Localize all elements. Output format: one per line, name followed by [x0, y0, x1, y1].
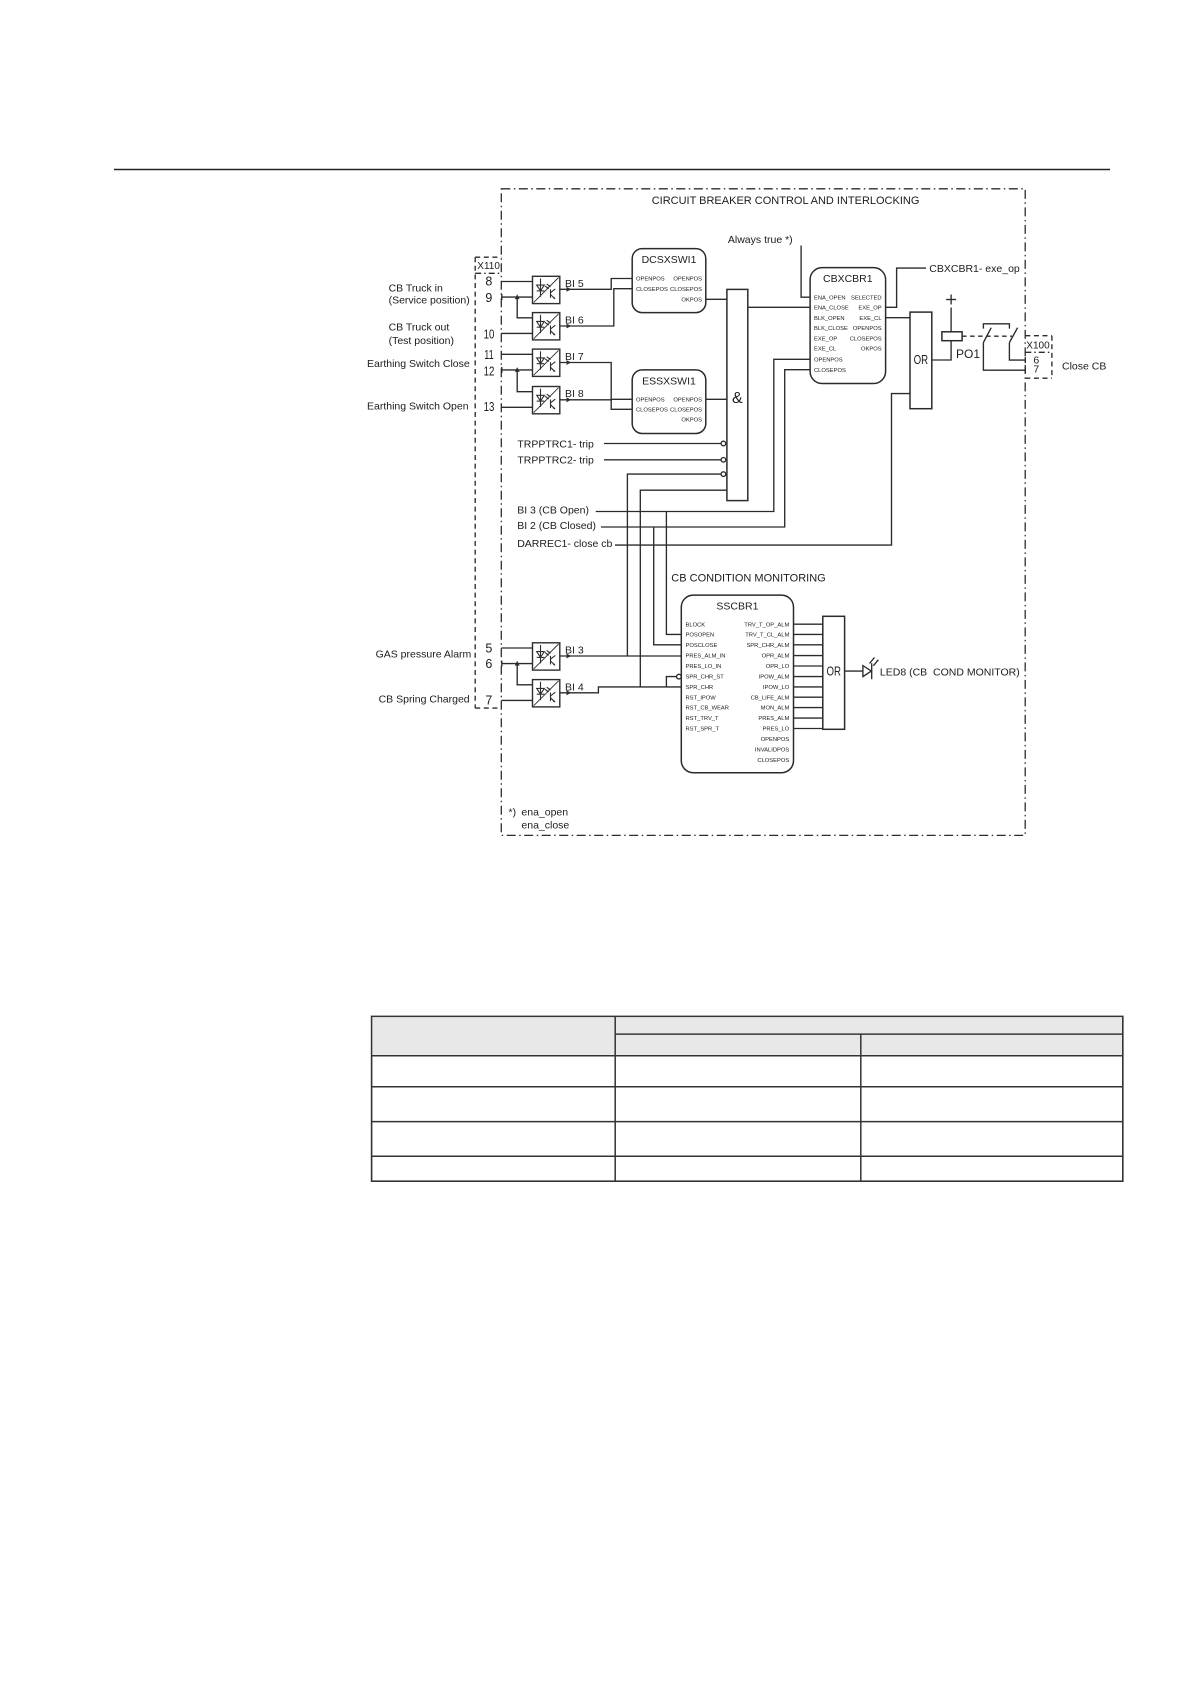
svg-text:TRV_T_CL_ALM: TRV_T_CL_ALM [745, 633, 789, 639]
svg-text:EXE_OP: EXE_OP [814, 336, 837, 342]
svg-text:GAS pressure Alarm: GAS pressure Alarm [376, 649, 472, 661]
svg-text:CB Spring Charged: CB Spring Charged [379, 693, 470, 705]
contact bracket [983, 324, 1009, 329]
wire branch BI2 to SSCBR1.POSCLOSE [654, 527, 682, 645]
contact blade 2 [1009, 328, 1017, 343]
svg-text:6: 6 [485, 657, 492, 671]
svg-text:8: 8 [485, 275, 492, 289]
svg-text:SPR_CHR: SPR_CHR [686, 685, 714, 691]
svg-text:OPENPOS: OPENPOS [673, 397, 702, 403]
svg-text:ENA_CLOSE: ENA_CLOSE [814, 305, 849, 311]
wire terminal 12 to BI7 lower input [501, 369, 532, 371]
svg-text:OPR_LO: OPR_LO [766, 664, 790, 670]
wire DCSXSWI1.OKPOS to AND [706, 298, 727, 300]
svg-text:11: 11 [484, 348, 494, 362]
wire terminal 13 to BI8 lower input [501, 406, 532, 408]
svg-text:(Test position): (Test position) [389, 335, 454, 347]
svg-text:CB Truck out: CB Truck out [389, 322, 450, 334]
svg-text:X100: X100 [1026, 340, 1050, 351]
inverter circle SPR_CHR_ST [677, 674, 682, 679]
wire terminal 11 to BI7 [501, 353, 532, 355]
svg-text:OPENPOS: OPENPOS [761, 737, 790, 743]
label CB Truck out (Test position) [389, 322, 454, 348]
block SSCBR1 [681, 595, 793, 773]
svg-text:RST_CB_WEAR: RST_CB_WEAR [686, 706, 730, 712]
wire terminal 5 to BI3 [501, 647, 532, 649]
OR gate 2 [823, 616, 845, 729]
svg-text:&: & [732, 390, 743, 407]
wires SSCBR1 outputs to OR2 [794, 624, 823, 728]
svg-text:OR: OR [914, 353, 929, 367]
wire branch 9 to BI6 upper input [517, 297, 532, 318]
junction on wire 9 [515, 294, 520, 299]
wire terminal 6 to BI3 lower input [501, 663, 532, 665]
svg-text:BI 3 (CB Open): BI 3 (CB Open) [517, 504, 589, 516]
svg-text:DCSXSWI1: DCSXSWI1 [642, 254, 697, 266]
wire BI5 output to DCSXSWI1.OPENPOS [560, 279, 632, 290]
block ESSXSWI1 [632, 370, 706, 434]
svg-text:*): *) [509, 806, 517, 818]
wire terminal 8 to BI5 [501, 281, 532, 283]
block CBXCBR1 [810, 268, 886, 384]
wire OR output to PO1 coil [932, 341, 951, 360]
svg-text:CLOSEPOS: CLOSEPOS [670, 407, 702, 413]
junction on wire 6 [515, 661, 520, 666]
svg-text:OKPOS: OKPOS [861, 347, 882, 353]
svg-text:RST_IPOW: RST_IPOW [686, 695, 717, 701]
wire BI3 line to CBXCBR1.OPENPOS [596, 359, 810, 511]
svg-text:OPENPOS: OPENPOS [853, 326, 882, 332]
svg-text:RST_TRV_T: RST_TRV_T [686, 716, 720, 722]
svg-text:9: 9 [485, 291, 492, 305]
wire AND output to CBXCBR1.ENA_CLOSE [748, 306, 810, 308]
svg-text:CBXCBR1- exe_op: CBXCBR1- exe_op [929, 263, 1020, 275]
svg-text:7: 7 [1033, 363, 1039, 375]
svg-text:CLOSEPOS: CLOSEPOS [670, 287, 702, 293]
svg-text:CB_LIFE_ALM: CB_LIFE_ALM [751, 695, 790, 701]
svg-text:EXE_CL: EXE_CL [814, 347, 837, 353]
wire gas alarm to AND inverted input [627, 474, 721, 656]
LED symbol [863, 658, 878, 680]
svg-text:OKPOS: OKPOS [681, 297, 702, 303]
svg-text:SPR_CHR_ALM: SPR_CHR_ALM [746, 643, 789, 649]
OR gate 1 [910, 312, 932, 409]
optocoupler BI7 [533, 349, 560, 376]
svg-text:OPR_ALM: OPR_ALM [762, 654, 790, 660]
AND gate [727, 289, 748, 500]
svg-text:CLOSEPOS: CLOSEPOS [850, 336, 882, 342]
wire contact 2 to X100:6 [1009, 343, 1025, 361]
wire spring charged to AND input [640, 490, 727, 687]
svg-text:7: 7 [485, 694, 492, 708]
svg-text:OPENPOS: OPENPOS [814, 357, 843, 363]
wire branch 6 to BI4 upper input [517, 664, 532, 685]
svg-text:PRES_LO_IN: PRES_LO_IN [686, 664, 722, 670]
svg-text:SELECTED: SELECTED [851, 295, 882, 301]
optocoupler BI6 [533, 313, 560, 340]
wire always true to CBXCBR1.ENA_OPEN [801, 246, 810, 298]
wire BI2 line to CBXCBR1.CLOSEPOS [601, 370, 810, 527]
header rule [114, 169, 1110, 171]
svg-text:MON_ALM: MON_ALM [761, 706, 790, 712]
svg-text:LED8 (CB COND MONITOR): LED8 (CB COND MONITOR) [880, 666, 1020, 678]
wire BI3 output to SSCBR1.PRES_ALM_IN [560, 655, 682, 657]
wire TRPPTRC1 to AND inverted input [604, 443, 721, 445]
wire contact 1 to X100:7 [983, 343, 1025, 371]
wire CBXCBR1.EXE_OP to label [886, 268, 926, 307]
svg-text:X110: X110 [477, 261, 500, 272]
enclosure CIRCUIT BREAKER CONTROL AND INTERLOCKING [501, 189, 1025, 836]
svg-text:POSCLOSE: POSCLOSE [686, 643, 718, 649]
junction on wire 12 [515, 367, 520, 372]
svg-text:POSOPEN: POSOPEN [686, 633, 715, 639]
svg-text:PRES_ALM_IN: PRES_ALM_IN [686, 654, 726, 660]
svg-text:ena_open: ena_open [521, 806, 568, 818]
optocoupler BI4 (spring) [533, 680, 560, 707]
terminal block X100 [1025, 336, 1052, 379]
svg-text:12: 12 [484, 364, 495, 378]
svg-text:TRPPTRC2- trip: TRPPTRC2- trip [517, 455, 594, 467]
svg-text:TRV_T_OP_ALM: TRV_T_OP_ALM [744, 622, 789, 628]
svg-text:OR: OR [826, 664, 841, 678]
svg-text:TRPPTRC1- trip: TRPPTRC1- trip [517, 438, 594, 450]
svg-text:OPENPOS: OPENPOS [673, 277, 702, 283]
svg-text:BI 2 (CB Closed): BI 2 (CB Closed) [517, 520, 596, 532]
svg-text:RST_SPR_T: RST_SPR_T [686, 727, 720, 733]
svg-text:EXE_OP: EXE_OP [858, 305, 881, 311]
optocoupler BI5 [533, 276, 560, 303]
svg-text:CIRCUIT BREAKER CONTROL AND IN: CIRCUIT BREAKER CONTROL AND INTERLOCKING [652, 195, 920, 207]
svg-text:BLK_CLOSE: BLK_CLOSE [814, 326, 848, 332]
svg-text:CLOSEPOS: CLOSEPOS [814, 368, 846, 374]
svg-text:Close CB: Close CB [1062, 360, 1106, 372]
svg-text:EXE_CL: EXE_CL [859, 316, 882, 322]
wire terminal 7 to BI4 lower input [501, 699, 532, 701]
svg-text:13: 13 [484, 400, 495, 414]
svg-text:CLOSEPOS: CLOSEPOS [757, 758, 789, 764]
block DCSXSWI1 [632, 249, 706, 313]
svg-text:CLOSEPOS: CLOSEPOS [636, 287, 668, 293]
svg-text:Earthing Switch Close: Earthing Switch Close [367, 358, 470, 370]
svg-text:ESSXSWI1: ESSXSWI1 [642, 376, 696, 388]
svg-text:10: 10 [484, 328, 495, 342]
svg-text:INVALIDPOS: INVALIDPOS [755, 747, 789, 753]
terminal block X110 [475, 257, 501, 708]
svg-text:OPENPOS: OPENPOS [636, 277, 665, 283]
svg-text:OKPOS: OKPOS [681, 418, 702, 424]
footnote ena_open ena_close [509, 806, 570, 831]
wire ESSXSWI1.OPENPOS to AND [706, 398, 727, 400]
svg-text:(Service position): (Service position) [389, 295, 470, 307]
wire branch BI3 to SSCBR1.POSOPEN [666, 512, 681, 635]
optocoupler BI3 (gas) [533, 643, 560, 670]
optocoupler BI8 [533, 387, 560, 414]
wire branch 12 to BI8 upper input [517, 370, 532, 392]
wire BI4 output to SSCBR1.SPR_CHR [560, 687, 682, 693]
svg-text:SPR_CHR_ST: SPR_CHR_ST [686, 675, 725, 681]
relay coil PO1 [942, 295, 980, 362]
svg-text:CB CONDITION MONITORING: CB CONDITION MONITORING [671, 573, 825, 585]
svg-text:BLOCK: BLOCK [686, 622, 706, 628]
wire jog SPR_CHR to SPR_CHR_ST [666, 677, 676, 687]
table [372, 1016, 1123, 1181]
svg-text:CB Truck in: CB Truck in [389, 282, 443, 294]
wire CBXCBR1.EXE_CL to OR [886, 317, 910, 319]
svg-text:IPOW_LO: IPOW_LO [763, 685, 790, 691]
wire terminal 10 to BI6 lower input [501, 332, 532, 334]
svg-text:PO1: PO1 [956, 347, 980, 361]
svg-text:5: 5 [485, 642, 492, 656]
svg-text:IPOW_ALM: IPOW_ALM [759, 675, 790, 681]
svg-text:PRES_LO: PRES_LO [763, 727, 790, 733]
label CB Truck in (Service position) [389, 282, 470, 306]
svg-text:BLK_OPEN: BLK_OPEN [814, 316, 845, 322]
svg-text:CBXCBR1: CBXCBR1 [823, 273, 873, 285]
wire TRPPTRC2 to AND inverted input [604, 459, 721, 461]
wire BI7 output to ESSXSWI1.CLOSEPOS [560, 363, 632, 410]
svg-text:CLOSEPOS: CLOSEPOS [636, 407, 668, 413]
svg-text:ENA_OPEN: ENA_OPEN [814, 295, 846, 301]
wire OR2 output to LED [845, 670, 863, 672]
mechanical linkage dashed [962, 335, 1012, 337]
wire BI8 output to ESSXSWI1.OPENPOS [560, 398, 632, 401]
svg-text:Earthing Switch Open: Earthing Switch Open [367, 400, 469, 412]
svg-text:Always true *): Always true *) [728, 234, 793, 246]
svg-text:OPENPOS: OPENPOS [636, 397, 665, 403]
contact blade 1 [983, 328, 991, 343]
wire terminal 9 to BI5 lower input [501, 296, 532, 298]
wire DARREC1 to OR input [615, 394, 910, 545]
svg-text:SSCBR1: SSCBR1 [716, 600, 758, 612]
wire BI6 output to DCSXSWI1.CLOSEPOS [560, 289, 632, 326]
svg-text:PRES_ALM: PRES_ALM [758, 716, 789, 722]
svg-text:DARREC1- close cb: DARREC1- close cb [517, 538, 612, 550]
svg-text:ena_close: ena_close [521, 819, 569, 831]
